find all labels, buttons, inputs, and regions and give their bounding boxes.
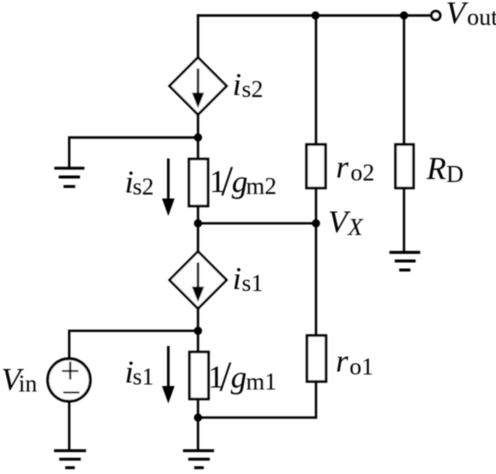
- resistor ro2: [307, 145, 326, 189]
- resistor RD: [396, 145, 414, 189]
- node dot Vin: [194, 327, 202, 335]
- wire ro2 bottom through VX to ro1 top: [315, 188, 317, 336]
- wire left rail upper: [197, 14, 199, 57]
- svg-text:R: R: [426, 150, 447, 186]
- svg-text:D: D: [446, 162, 463, 188]
- svg-text:r: r: [336, 343, 349, 379]
- wire resistor gm1 bottom to ground: [197, 399, 199, 450]
- wire diamond is2 bottom to resistor gm2 top: [197, 115, 199, 160]
- wire right rail top to ro2: [315, 16, 317, 145]
- svg-text:in: in: [19, 371, 38, 397]
- wire ro1 bottom to bottom rail: [315, 382, 317, 419]
- resistor 1/gm2: [189, 159, 208, 206]
- arrow is2 (current direction): [162, 159, 175, 217]
- svg-text:s2: s2: [242, 77, 263, 103]
- node dot top-RD: [400, 11, 408, 19]
- current source U1 (diamond is1): [170, 252, 227, 309]
- svg-text:s2: s2: [133, 175, 154, 201]
- svg-text:i: i: [233, 260, 242, 296]
- ground G4 (below RD): [389, 252, 420, 270]
- svg-text:s1: s1: [133, 365, 154, 391]
- svg-text:i: i: [233, 66, 242, 102]
- wire RD rail top: [403, 16, 405, 145]
- svg-text:o1: o1: [350, 355, 374, 381]
- svg-text:r: r: [336, 149, 349, 185]
- node dot VX-left: [194, 219, 202, 227]
- wire resistor gm2 bottom to diamond is1 top: [197, 206, 199, 252]
- voltage source Vin: [48, 359, 91, 402]
- wire top rail: [197, 14, 430, 16]
- svg-text:X: X: [347, 215, 364, 241]
- svg-text:o2: o2: [351, 160, 375, 186]
- wire Vin horizontal: [69, 330, 198, 359]
- arrow is1 (current direction): [162, 346, 175, 404]
- svg-text:g: g: [231, 358, 247, 394]
- wire gate2 horizontal to ground: [69, 136, 198, 167]
- terminal Vout: [431, 11, 440, 20]
- ground G1 (mid-left): [54, 168, 84, 186]
- ground G2 (below Vin): [54, 451, 86, 468]
- ground G3 (below gm1): [183, 451, 214, 468]
- node dot gate2: [194, 133, 202, 141]
- resistor ro1: [307, 336, 326, 382]
- current source U2 (diamond is2): [170, 58, 227, 115]
- wire RD bottom to ground: [403, 188, 405, 252]
- svg-text:out: out: [467, 5, 496, 31]
- node dot top-ro2: [311, 11, 319, 19]
- node dot bottom: [194, 414, 202, 422]
- svg-text:m2: m2: [246, 174, 277, 200]
- wire node VX horizontal: [198, 222, 316, 224]
- resistor 1/gm1: [190, 352, 209, 399]
- node dot VX-right: [312, 219, 320, 227]
- svg-text:s1: s1: [242, 271, 263, 297]
- wire Vin source bottom to ground: [68, 401, 70, 449]
- svg-text:m1: m1: [246, 369, 277, 395]
- wire diamond is1 bottom to resistor gm1 top: [197, 309, 199, 353]
- wire bottom rail node to ro1: [198, 416, 316, 418]
